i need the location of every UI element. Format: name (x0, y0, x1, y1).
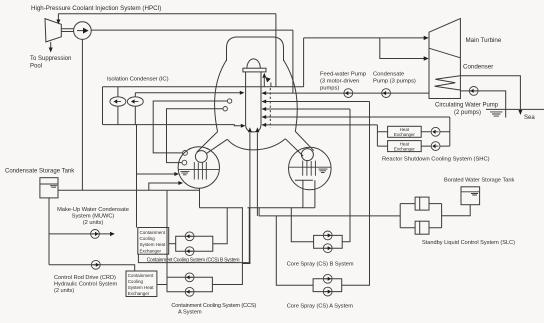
svg-text:Core Spray (CS) A System: Core Spray (CS) A System (287, 303, 354, 309)
svg-text:Reactor Shutdown Cooling Syste: Reactor Shutdown Cooling System (SHC) (382, 157, 490, 163)
svg-text:pumps): pumps) (320, 86, 339, 92)
wire vessel bottom line 1 (242, 133, 250, 264)
pool left water mark (181, 171, 190, 174)
wire injection line 5 SHC supply (262, 124, 377, 126)
svg-text:System Heat: System Heat (128, 285, 155, 290)
wire CCS A HX to loop (157, 284, 167, 286)
wire SHC inlet manifold (377, 125, 387, 146)
svg-text:Exchanger: Exchanger (394, 132, 416, 137)
svg-text:High-Pressure Coolant Injectio: High-Pressure Coolant Injection System (… (31, 5, 161, 12)
wire CS A riser (342, 102, 370, 286)
svg-text:(2 units): (2 units) (54, 288, 74, 294)
node SRV tap 2 (223, 107, 227, 111)
pool right strainer (295, 179, 313, 181)
wire pool right drains (303, 180, 315, 208)
wire SHC HX1 to pump (421, 131, 450, 133)
wire steam branch (380, 38, 427, 59)
wire tank bottom feed (48, 198, 50, 265)
svg-text:Core Spray (CS) B System: Core Spray (CS) B System (287, 261, 354, 267)
vent pipe left (197, 132, 227, 154)
wire vessel bottom line 2 (256, 133, 258, 216)
containment dome (227, 37, 284, 61)
arrow MUWC discharge (110, 232, 115, 236)
svg-text:(2 units): (2 units) (83, 220, 104, 226)
wire main steam riser (303, 38, 305, 87)
pump SLC 1 (415, 197, 429, 210)
svg-text:Standby Liquid Control System: Standby Liquid Control System (SLC) (422, 240, 515, 246)
wire CCS A spray return drop (166, 190, 168, 277)
pump SLC 2 (415, 221, 429, 234)
arrow into sea (518, 110, 522, 115)
wire HPCI injection drop (292, 30, 294, 93)
tank condensate storage (40, 178, 58, 198)
wire IC unit1 riser (117, 87, 119, 125)
sea surface line (486, 108, 544, 110)
wire CRD line (49, 265, 135, 271)
svg-text:Containment Cooling System (CC: Containment Cooling System (CCS) (171, 303, 256, 309)
svg-text:Circulating Water Pump: Circulating Water Pump (435, 103, 499, 109)
arrow line5 into vessel (262, 123, 267, 127)
svg-text:Cooling: Cooling (140, 236, 156, 241)
pump CCS B 2 (185, 247, 194, 256)
heat-exchanger CCS A box (126, 271, 157, 297)
wire injection line 4 SHC return (262, 116, 450, 118)
pump SHC 2 (431, 142, 440, 151)
arrow up into vessel 1 (248, 127, 252, 132)
heat-exchanger IC unit 2 (127, 97, 143, 106)
svg-text:Control Rod Drive (CRD): Control Rod Drive (CRD) (54, 275, 116, 281)
svg-text:Sea: Sea (524, 115, 535, 121)
wire SHC HX2 to pump (421, 145, 450, 147)
svg-text:Feed-water Pump: Feed-water Pump (320, 72, 366, 78)
wire CCS A pump loop (167, 277, 212, 292)
svg-text:(3 motor-driven: (3 motor-driven (320, 79, 359, 85)
node SRV tap 1 (227, 99, 231, 103)
wire dashed vessel line (269, 88, 271, 128)
wire tank outlet line (58, 189, 200, 191)
wire SRV1 leader (153, 101, 227, 153)
wire relief line B to pool (149, 183, 180, 190)
wire CCS B spray return riser (136, 125, 138, 228)
wire MUWC line (49, 233, 111, 235)
wire SLC loop (400, 204, 441, 228)
heat-exchanger SHC 2 box (388, 141, 422, 152)
wire CS A suction drop (276, 216, 313, 285)
pool right downcomers (303, 161, 316, 176)
heat-exchanger SHC 1 box (388, 126, 422, 137)
pump CRD (91, 260, 100, 269)
node SRV2 sparger (182, 160, 187, 165)
arrow into HPCI turbine (56, 20, 60, 25)
arrow relief B into pool (178, 181, 183, 185)
pump MUWC (91, 230, 100, 239)
reactor vessel flange (243, 68, 266, 72)
svg-text:(2 pumps): (2 pumps) (454, 110, 481, 116)
arrow IC return into vessel (241, 124, 246, 128)
svg-text:Borated Water Storage Tank: Borated Water Storage Tank (444, 177, 514, 183)
wire injection line 2 (262, 101, 370, 103)
suppression pool left (178, 147, 219, 188)
svg-text:Containment: Containment (140, 230, 166, 235)
svg-text:Containment: Containment (128, 273, 154, 278)
heat-exchanger CCS B box (138, 228, 169, 255)
pool left downcomers (194, 162, 206, 180)
wire SHC pump manifold (449, 117, 451, 146)
wire CCS B HX to loop (169, 243, 176, 245)
arrow line4 into vessel (262, 115, 267, 119)
wire injection line 3 (262, 108, 350, 110)
wire relief line A to pool (137, 125, 176, 174)
pump CCS A 1 (185, 273, 194, 282)
pump CCS A 2 (185, 287, 194, 296)
svg-text:Exchanger: Exchanger (140, 248, 162, 253)
pump CS A 2 (323, 287, 332, 296)
svg-text:System Heat: System Heat (140, 242, 167, 247)
svg-text:Condenser: Condenser (463, 63, 493, 70)
wire borated tank to SLC (442, 205, 471, 216)
pump condensate (382, 89, 391, 98)
wire HPCI steam line top (58, 13, 276, 15)
wire CS A pump loop (313, 279, 342, 292)
svg-text:Condensate: Condensate (373, 72, 404, 78)
arrow line2 into vessel (262, 100, 267, 104)
svg-text:Isolation Condenser (IC): Isolation Condenser (IC) (107, 77, 169, 83)
arrow feedwater into vessel (262, 91, 267, 95)
svg-text:Hydraulic Control System: Hydraulic Control System (54, 281, 117, 287)
arrow line3 into vessel (262, 107, 267, 111)
wire pool bottom manifold (200, 207, 315, 209)
water symbol sea (490, 112, 503, 116)
wire steam stub 2 (270, 83, 272, 87)
pump CS A 1 (323, 274, 332, 283)
svg-text:System (MUWC): System (MUWC) (72, 213, 115, 219)
arrow up into vessel 2 (255, 127, 259, 132)
svg-text:Exchanger: Exchanger (394, 147, 416, 152)
turbine HPCI (45, 19, 61, 42)
arrow steam diagonal (265, 77, 270, 82)
arrow feed into vessel left (240, 91, 245, 95)
wire HPCI pump suction (81, 39, 83, 190)
containment drywell lobe right (284, 60, 298, 131)
wire HPCI turbine inlet drop (57, 14, 59, 21)
svg-text:Main Turbine: Main Turbine (466, 37, 502, 44)
arrow steam into turbine LP (424, 56, 429, 60)
reactor vessel head (247, 59, 260, 68)
wire feedwater line (262, 92, 429, 94)
wire steam outlet stub (263, 78, 265, 87)
containment drywell lobe left (215, 60, 227, 132)
node SRV1 sparger (183, 151, 188, 156)
wire SLC header from manifold (259, 208, 400, 216)
wire CS B riser (342, 109, 350, 242)
svg-text:Pool: Pool (30, 64, 42, 70)
wire CCS A suction from manifold (212, 208, 242, 285)
pump feed-water (344, 89, 353, 98)
pump CCS B 1 (185, 232, 194, 241)
wire IC box left edge (102, 87, 104, 125)
wire IC steam header (103, 86, 304, 88)
wire CCS B underline pipe (138, 208, 249, 263)
containment lobe bottom arc (227, 139, 285, 150)
wire pool left drain (199, 188, 201, 208)
tank borated water (461, 187, 480, 205)
turbine section divider (429, 48, 460, 58)
heat-exchanger IC unit 1 (110, 97, 126, 106)
svg-text:Pump (3 pumps): Pump (3 pumps) (373, 79, 416, 85)
vent opening left (195, 151, 207, 163)
wire HPCI turbine exhaust (50, 42, 52, 48)
vent pipe right (285, 131, 313, 156)
wire CCS B pump loop (176, 236, 213, 251)
wire CCS B suction from manifold (213, 208, 227, 244)
pump HPCI (74, 22, 92, 40)
wire IC unit2 riser (134, 93, 136, 125)
wire HPCI steam riser (275, 14, 277, 87)
wire condenser to sea (460, 76, 520, 111)
turbine main outline (429, 19, 460, 99)
condenser coil (435, 76, 460, 90)
wire SRV2 leader (167, 109, 224, 163)
pump CS B 1 (323, 231, 332, 240)
suppression pool right (289, 147, 332, 190)
svg-text:Exchanger: Exchanger (128, 291, 150, 296)
arrow steam up (262, 73, 266, 78)
svg-text:Cooling: Cooling (128, 279, 144, 284)
pool left water level (178, 168, 219, 170)
wire IC condensate bottom line (103, 125, 243, 126)
arrow to suppression pool (49, 48, 53, 53)
shaft HPCI turbine-pump (61, 29, 73, 32)
svg-text:Make-Up Water Condensate: Make-Up Water Condensate (57, 207, 129, 213)
vent opening right (301, 149, 313, 161)
arrow steam into turbine HP (424, 36, 429, 40)
pump SHC 1 (431, 127, 440, 136)
svg-text:Condensate Storage Tank: Condensate Storage Tank (5, 169, 75, 175)
wire HPCI pump discharge (91, 29, 293, 31)
arrow relief A into pool (174, 172, 179, 176)
wire circulating water line (460, 91, 505, 118)
wire main steam line to turbine (304, 37, 427, 39)
wire CS B pump loop (314, 235, 343, 248)
pump circulating water (469, 87, 478, 96)
pump CS B 2 (323, 244, 332, 253)
pool right water mark (319, 169, 328, 172)
pool right water level (289, 166, 331, 168)
wire IC unit2 feed line to vessel (135, 92, 241, 94)
reactor vessel body (246, 72, 261, 132)
svg-text:A System: A System (178, 310, 202, 316)
wire CS B suction drop (291, 208, 313, 242)
svg-text:To Suppression: To Suppression (30, 56, 71, 62)
